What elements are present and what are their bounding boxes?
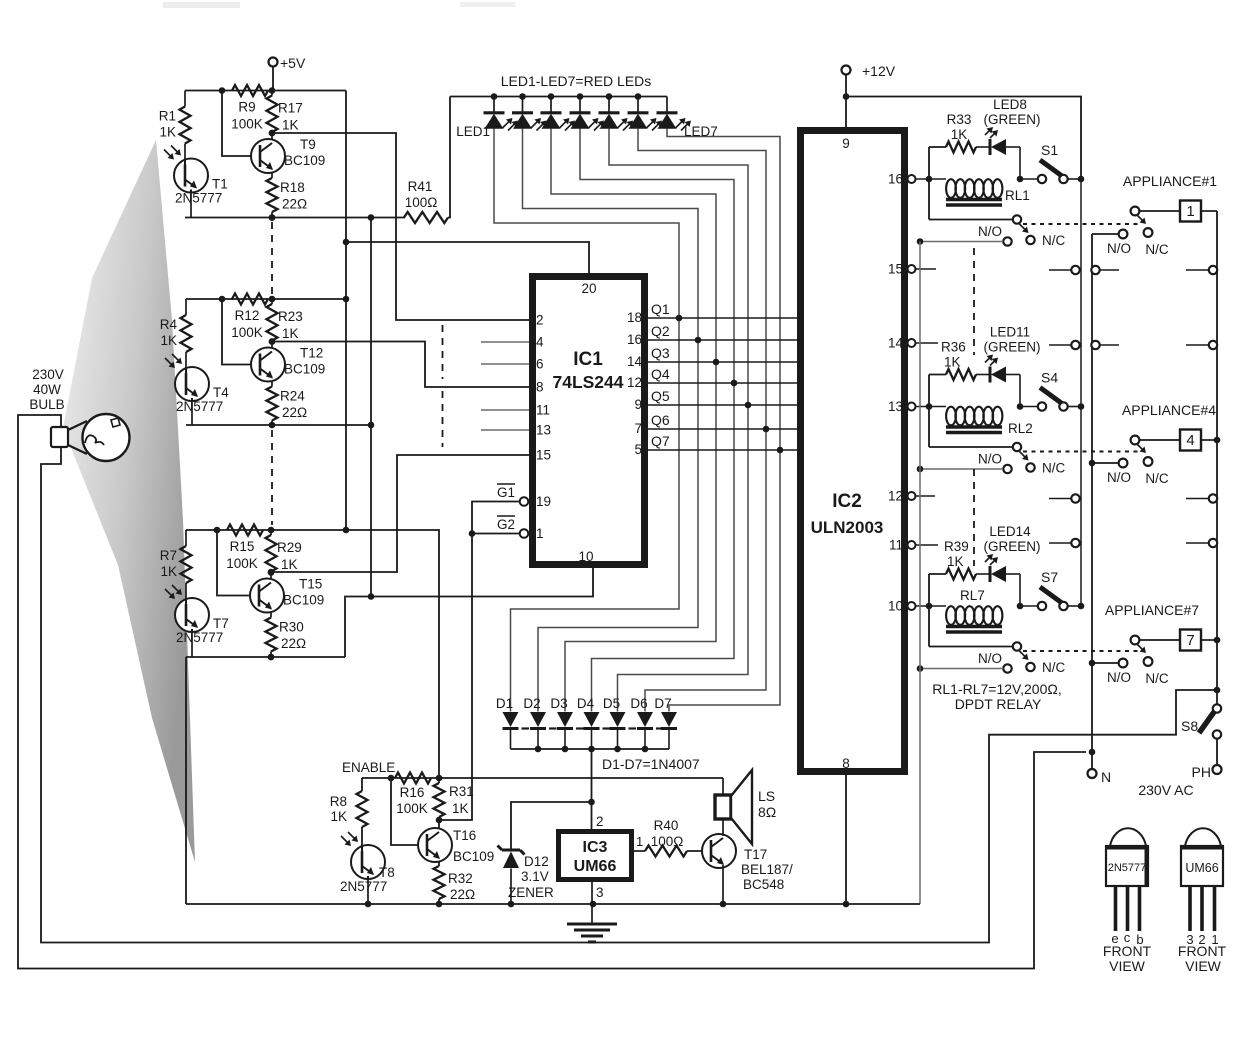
appliance switch pole #1 — [1131, 207, 1140, 216]
relay RL7 N/C contact — [1026, 663, 1034, 671]
svg-text:ENABLE: ENABLE — [342, 760, 395, 775]
contact stub row y498 left — [1049, 498, 1071, 500]
svg-text:Q5: Q5 — [651, 388, 670, 404]
svg-text:19: 19 — [536, 494, 551, 509]
wire T17 emitter — [722, 865, 724, 904]
svg-text:(GREEN): (GREEN) — [984, 539, 1041, 554]
node T9 collector junction — [271, 132, 273, 139]
contact stub row y345 right — [1186, 344, 1209, 346]
svg-text:100Ω: 100Ω — [405, 195, 438, 210]
wire D3 cathode — [564, 729, 566, 750]
svg-text:16: 16 — [627, 332, 642, 347]
svg-text:16: 16 — [888, 172, 903, 187]
wire neutral rail to N terminal — [1091, 234, 1093, 769]
svg-text:3.1V: 3.1V — [521, 869, 549, 884]
svg-text:N/C: N/C — [1042, 660, 1066, 675]
svg-text:22Ω: 22Ω — [281, 636, 306, 651]
node base feed (T9) — [219, 87, 226, 94]
svg-text:2: 2 — [536, 313, 544, 328]
svg-text:LS: LS — [758, 788, 775, 804]
IC U2: IC2 ULN2003 box — [801, 131, 905, 772]
svg-text:BULB: BULB — [29, 397, 64, 412]
wire IC2 pin 8 to ground rail — [845, 775, 847, 904]
terminal PH — [1213, 765, 1222, 774]
svg-text:1K: 1K — [282, 118, 299, 133]
svg-text:1K: 1K — [330, 809, 347, 824]
appliance switch pole #4 — [1131, 436, 1140, 445]
IC U1: IC1 74LS244 box — [533, 277, 645, 565]
contact stub row y270 left — [1049, 269, 1071, 271]
wire IC2 pin 11 stub — [916, 544, 939, 546]
svg-text:T15: T15 — [299, 577, 322, 592]
svg-text:1: 1 — [1186, 203, 1194, 220]
terminal N — [1088, 769, 1097, 778]
svg-text:12: 12 — [627, 375, 642, 390]
svg-text:15: 15 — [888, 262, 903, 277]
svg-text:D12: D12 — [524, 854, 549, 869]
svg-text:FRONT: FRONT — [1103, 943, 1152, 959]
svg-text:R12: R12 — [235, 308, 260, 323]
resistor R32 — [438, 861, 440, 866]
svg-text:R39: R39 — [944, 539, 969, 554]
wire R4 to T4 collector — [185, 352, 187, 367]
wire +5V distribution vertical — [345, 91, 347, 531]
svg-text:LED14: LED14 — [989, 524, 1031, 539]
wire LED1 cathode / Q1 / D1 net — [494, 129, 679, 712]
svg-text:N/C: N/C — [1042, 233, 1066, 248]
appliance #7 box — [1140, 639, 1181, 641]
svg-text:2: 2 — [596, 814, 604, 829]
LED7 red — [666, 97, 668, 113]
svg-text:N/C: N/C — [1145, 671, 1169, 686]
svg-text:9: 9 — [842, 136, 850, 151]
svg-text:1: 1 — [636, 834, 643, 849]
wire common emitter to IC1 pin 10 — [345, 568, 593, 657]
bulb BL1 230V 40W — [51, 427, 68, 447]
svg-text:8: 8 — [536, 380, 544, 395]
loudspeaker LS 8Ω — [715, 795, 731, 819]
svg-text:1K: 1K — [951, 127, 968, 142]
mechanical link dotted RL1 to appliance switch — [1023, 223, 1140, 225]
appliance #4 N/O contact — [1119, 459, 1128, 468]
switch S7 — [1020, 605, 1038, 607]
svg-text:1K: 1K — [160, 564, 177, 579]
resistor R12 — [232, 294, 268, 305]
svg-text:11: 11 — [889, 538, 903, 553]
svg-text:74LS244: 74LS244 — [552, 372, 623, 392]
svg-text:T16: T16 — [453, 828, 476, 843]
svg-text:Q2: Q2 — [651, 323, 670, 339]
wire LED2 cathode / Q2 / D2 net — [523, 129, 699, 712]
svg-text:APPLIANCE#4: APPLIANCE#4 — [1122, 402, 1216, 418]
package front view UM66 — [1185, 828, 1221, 846]
relay RL1 pole contact — [929, 219, 1013, 221]
wire T4 emitter to rail — [191, 401, 193, 425]
svg-text:R9: R9 — [238, 100, 255, 115]
svg-text:N/C: N/C — [1145, 471, 1169, 486]
transistor T15 — [250, 579, 284, 613]
svg-text:N/C: N/C — [1145, 242, 1169, 257]
wire Q3 output line — [648, 361, 797, 363]
wire R7 to T7 collector — [185, 583, 187, 598]
wire Q4 output line — [648, 382, 797, 384]
svg-text:T8: T8 — [379, 865, 395, 880]
svg-text:Q6: Q6 — [651, 412, 670, 428]
ground symbol — [591, 904, 593, 924]
svg-text:Q7: Q7 — [651, 433, 670, 449]
wire LED6 cathode / Q6 / D6 net — [638, 129, 766, 712]
UM66 legs 3 2 1 — [1188, 886, 1192, 931]
light arrows into T8 — [341, 836, 350, 845]
resistor R39 — [929, 573, 946, 575]
svg-text:4: 4 — [1186, 432, 1194, 449]
svg-text:(GREEN): (GREEN) — [984, 112, 1041, 127]
dashed link relay1-relay2 — [973, 248, 975, 355]
wire left column link stage3 to stage4 — [185, 657, 187, 904]
switch S8 — [1213, 704, 1221, 712]
wire LED3 cathode / Q3 / D3 net — [551, 129, 716, 712]
svg-text:RL7: RL7 — [960, 588, 985, 603]
contact stub row y345 left — [1049, 344, 1071, 346]
node T15 collector junction — [270, 572, 272, 579]
svg-text:22Ω: 22Ω — [450, 887, 475, 902]
svg-text:9: 9 — [634, 397, 642, 412]
diode D3 — [557, 712, 573, 727]
svg-text:T12: T12 — [300, 346, 323, 361]
light arrows into T1 — [164, 150, 173, 159]
wire IC2 pin to relay RL7 — [916, 605, 947, 607]
wire D2 cathode — [537, 729, 539, 750]
svg-text:DPDT RELAY: DPDT RELAY — [955, 696, 1042, 712]
resistor R4 — [185, 299, 187, 315]
svg-text:UM66: UM66 — [574, 858, 617, 875]
svg-text:10: 10 — [578, 549, 593, 564]
wire IC2 pin 12 stub — [916, 495, 936, 497]
svg-text:12: 12 — [888, 489, 903, 504]
LED LED8 (GREEN) — [976, 146, 990, 148]
svg-text:IC1: IC1 — [573, 349, 603, 370]
wire D4 cathode — [591, 729, 593, 750]
wire D5 cathode — [617, 729, 619, 750]
dashed ellipsis for input channels — [442, 325, 444, 379]
svg-text:RL1-RL7=12V,200Ω,: RL1-RL7=12V,200Ω, — [932, 681, 1061, 697]
IC3 pin 3 — [591, 882, 593, 904]
svg-text:N/C: N/C — [1042, 461, 1066, 476]
diode D2 — [530, 712, 546, 727]
wire LED7 cathode / Q7 / D7 net — [667, 129, 780, 712]
svg-text:T7: T7 — [213, 616, 229, 631]
resistor R41 — [404, 212, 448, 223]
transistor T16 BC109 — [418, 828, 452, 862]
resistor R24 — [271, 381, 273, 387]
svg-text:100K: 100K — [396, 801, 428, 816]
resistor R1 — [184, 91, 186, 107]
svg-text:T17: T17 — [744, 847, 767, 862]
wire IC2 pin 14 stub — [916, 342, 939, 344]
svg-text:1: 1 — [536, 526, 544, 541]
wire IC2 pin 15 stub — [916, 268, 937, 270]
svg-text:R41: R41 — [408, 179, 433, 194]
wire stage1 bottom rail — [185, 217, 405, 219]
resistor R36 — [929, 374, 946, 376]
svg-text:BC109: BC109 — [284, 362, 325, 377]
wire relay N/O common rail — [919, 242, 921, 905]
contact stub row y345 middle — [1091, 341, 1099, 349]
svg-text:T4: T4 — [213, 385, 229, 400]
contact stub row y498 right — [1186, 498, 1209, 500]
svg-text:BC548: BC548 — [743, 877, 784, 892]
contact stub row y270 middle — [1091, 266, 1099, 274]
wire Q5 output line — [648, 404, 797, 406]
wire LED4 cathode / Q4 / D4 net — [580, 129, 734, 712]
dashed link stage2-stage3 — [271, 430, 273, 525]
svg-text:D6: D6 — [630, 696, 647, 711]
svg-text:G1: G1 — [497, 485, 515, 500]
2N5777 legs e c b — [1114, 886, 1118, 931]
resistor R16 — [395, 773, 431, 784]
svg-text:R15: R15 — [230, 539, 255, 554]
svg-text:2N5777: 2N5777 — [340, 879, 387, 894]
wire T16 base feed — [391, 778, 427, 845]
diode D6 — [637, 712, 653, 727]
wire stage top rail (R1 stage) — [185, 90, 346, 92]
LED2 red — [519, 93, 526, 100]
svg-text:D4: D4 — [577, 696, 595, 711]
svg-text:230V AC: 230V AC — [1138, 782, 1193, 798]
wire ground/emitter rail — [186, 903, 920, 905]
svg-text:RL1: RL1 — [1005, 188, 1030, 203]
phototransistor T7 2N5777 — [175, 598, 209, 632]
svg-text:8: 8 — [842, 756, 850, 771]
svg-text:BC109: BC109 — [453, 849, 494, 864]
wire switch rail S1-S7 — [1080, 179, 1082, 606]
relay RL1 N/O contact — [1003, 237, 1011, 245]
LED LED11 (GREEN) — [976, 374, 990, 376]
svg-text:8Ω: 8Ω — [758, 804, 776, 820]
package front view 2N5777 — [1110, 828, 1146, 846]
svg-text:R8: R8 — [330, 794, 347, 809]
IC2 right pin circles — [908, 175, 916, 183]
resistor R33 — [929, 146, 946, 148]
resistor R17 — [269, 87, 276, 94]
svg-text:D7: D7 — [654, 696, 671, 711]
wire D7 cathode — [668, 729, 670, 750]
svg-text:IC2: IC2 — [832, 491, 862, 512]
light arrows into T4 — [165, 358, 174, 367]
LED6 red — [635, 93, 642, 100]
svg-text:6: 6 — [536, 357, 544, 372]
resistor R15 — [227, 525, 263, 536]
transistor T9 — [251, 139, 285, 173]
appliance #4 N/C contact — [1144, 457, 1153, 466]
svg-text:20: 20 — [581, 281, 596, 296]
svg-text:R7: R7 — [160, 548, 177, 563]
terminal +12V — [842, 66, 851, 75]
svg-text:3: 3 — [596, 885, 604, 900]
switch S1 — [1020, 178, 1038, 180]
wire stage3 rail extension to ENABLE stage supply — [346, 530, 439, 778]
svg-text:(GREEN): (GREEN) — [984, 340, 1041, 355]
svg-text:R4: R4 — [160, 317, 178, 332]
svg-text:R33: R33 — [947, 112, 972, 127]
svg-text:R24: R24 — [280, 389, 305, 404]
relay coil RL1 — [946, 179, 956, 198]
appliance switch pole #7 — [1131, 636, 1140, 645]
resistor R9 — [232, 85, 268, 96]
svg-text:1K: 1K — [282, 326, 299, 341]
svg-text:RL2: RL2 — [1008, 421, 1033, 436]
wire ENABLE rail to speaker — [722, 778, 724, 795]
svg-text:N/O: N/O — [1107, 470, 1131, 485]
relay coil RL2 — [946, 407, 956, 426]
svg-text:BC109: BC109 — [283, 593, 324, 608]
svg-text:Q1: Q1 — [651, 301, 670, 317]
wire stage3 output to IC1 pin 15 — [268, 569, 275, 576]
svg-text:N/O: N/O — [1107, 670, 1131, 685]
appliance #1 N/C contact — [1144, 228, 1153, 237]
dashed link stage1-stage2 — [271, 222, 273, 295]
relay RL2 N/C contact — [1026, 463, 1034, 471]
transistor T12 — [251, 348, 285, 382]
LED LED14 (GREEN) — [976, 573, 990, 575]
svg-text:Q4: Q4 — [651, 366, 670, 382]
svg-text:R23: R23 — [278, 309, 303, 324]
svg-text:T1: T1 — [212, 177, 228, 192]
svg-text:BC109: BC109 — [284, 153, 325, 168]
switch S4 — [1020, 406, 1038, 408]
svg-text:D2: D2 — [523, 696, 540, 711]
wire diode cathode bus — [511, 748, 670, 750]
LED3 red — [548, 93, 555, 100]
relay RL2 pole contact — [929, 446, 1013, 448]
svg-text:BEL187/: BEL187/ — [741, 862, 793, 877]
svg-text:S7: S7 — [1041, 569, 1058, 585]
appliance #1 box — [1140, 210, 1181, 212]
svg-text:APPLIANCE#7: APPLIANCE#7 — [1105, 602, 1199, 618]
wire R41 to LED bus — [448, 97, 450, 218]
svg-text:N/O: N/O — [978, 452, 1002, 467]
svg-text:100K: 100K — [231, 117, 263, 132]
resistor R30 — [270, 612, 272, 618]
svg-text:PH: PH — [1192, 764, 1211, 780]
relay RL7 pole contact — [929, 646, 1013, 648]
svg-text:10: 10 — [888, 599, 903, 614]
wire stage3 bottom rail — [186, 656, 345, 658]
svg-text:R36: R36 — [941, 340, 966, 355]
svg-text:R30: R30 — [279, 620, 304, 635]
wire IC2 pin to relay RL1 — [916, 178, 947, 180]
svg-text:7: 7 — [634, 421, 642, 436]
contact stub row y543 left — [1049, 542, 1071, 544]
svg-text:2N5777: 2N5777 — [1108, 862, 1147, 874]
wire bulb phase lead (to S8/PH) — [18, 415, 1086, 969]
svg-text:Q3: Q3 — [651, 345, 670, 361]
diode D1 — [503, 712, 519, 727]
svg-text:40W: 40W — [33, 382, 61, 397]
svg-text:1K: 1K — [947, 554, 964, 569]
IC U3: IC3 UM66 box — [559, 832, 632, 880]
svg-text:2N5777: 2N5777 — [176, 399, 223, 414]
svg-text:13: 13 — [888, 399, 903, 414]
svg-text:LED8: LED8 — [993, 97, 1027, 112]
diode D5 — [610, 712, 626, 727]
svg-text:UM66: UM66 — [1185, 861, 1218, 875]
svg-text:1K: 1K — [944, 355, 961, 370]
svg-text:D1: D1 — [496, 696, 513, 711]
svg-text:D3: D3 — [550, 696, 567, 711]
svg-text:R1: R1 — [159, 109, 176, 124]
wire stage1 output to IC1 pin 2 — [269, 130, 276, 137]
svg-text:14: 14 — [888, 336, 904, 351]
wire stage2 output to IC1 pin 8 — [269, 338, 276, 345]
svg-text:1K: 1K — [160, 333, 177, 348]
svg-text:N/O: N/O — [978, 651, 1002, 666]
svg-text:+5V: +5V — [280, 55, 306, 71]
svg-text:ULN2003: ULN2003 — [811, 518, 884, 537]
node T12 collector junction — [271, 341, 273, 348]
wire G1/G2 to ENABLE transistor collector — [439, 502, 520, 821]
svg-text:22Ω: 22Ω — [282, 405, 307, 420]
svg-text:N: N — [1101, 769, 1111, 785]
appliance #1 N/O contact — [1119, 230, 1128, 239]
svg-text:R31: R31 — [449, 784, 474, 799]
resistor R31 — [438, 778, 440, 783]
transistor T17 BEL187/BC548 — [702, 834, 736, 868]
wire Q1 output line — [648, 317, 797, 319]
wire LED5 cathode / Q5 / D5 net — [609, 129, 748, 712]
LED5 red — [606, 93, 613, 100]
svg-text:230V: 230V — [32, 367, 64, 382]
svg-text:100K: 100K — [231, 325, 263, 340]
wire R1 to T1 collector — [184, 144, 186, 159]
resistor R18 — [271, 172, 273, 178]
resistor R7 — [185, 530, 187, 546]
svg-text:VIEW: VIEW — [1109, 958, 1146, 974]
wire appliance return rail — [1216, 211, 1218, 708]
contact stub row y543 right — [1186, 542, 1209, 544]
wire Q2 output line — [648, 339, 797, 341]
wire T1 emitter to rail — [190, 193, 192, 218]
relay RL1 N/C contact — [1026, 236, 1034, 244]
svg-text:14: 14 — [627, 354, 643, 369]
svg-text:LED7: LED7 — [684, 124, 718, 139]
wire T7 emitter to rail — [191, 632, 193, 657]
node base feed (T15) — [214, 527, 221, 534]
svg-text:4: 4 — [536, 335, 544, 350]
svg-text:IC3: IC3 — [583, 839, 608, 856]
svg-text:100K: 100K — [226, 556, 258, 571]
diode D4 — [584, 712, 600, 727]
svg-text:7: 7 — [1186, 632, 1194, 649]
resistor R29 — [268, 527, 275, 534]
resistor R23 — [269, 296, 276, 303]
svg-text:N/O: N/O — [1107, 241, 1131, 256]
svg-text:1K: 1K — [159, 125, 176, 140]
contact stub row y270 right — [1186, 269, 1209, 271]
svg-text:5: 5 — [634, 442, 642, 457]
wire +12V to IC2 pin 9 and switch rail — [845, 75, 847, 128]
dashed link relay2-relay7 — [973, 469, 975, 566]
svg-text:D5: D5 — [603, 696, 620, 711]
wire diode bus to IC3 pin 2 — [591, 749, 593, 829]
wire T8 emitter — [367, 879, 369, 904]
wire +5V to IC1 pin 20 — [346, 242, 589, 273]
svg-text:15: 15 — [536, 448, 551, 463]
relay RL7 N/O contact — [1003, 664, 1011, 672]
appliance #7 N/O contact — [1119, 659, 1128, 668]
wire T17 collector to speaker — [722, 819, 724, 836]
svg-text:LED1-LED7=RED LEDs: LED1-LED7=RED LEDs — [501, 73, 652, 89]
